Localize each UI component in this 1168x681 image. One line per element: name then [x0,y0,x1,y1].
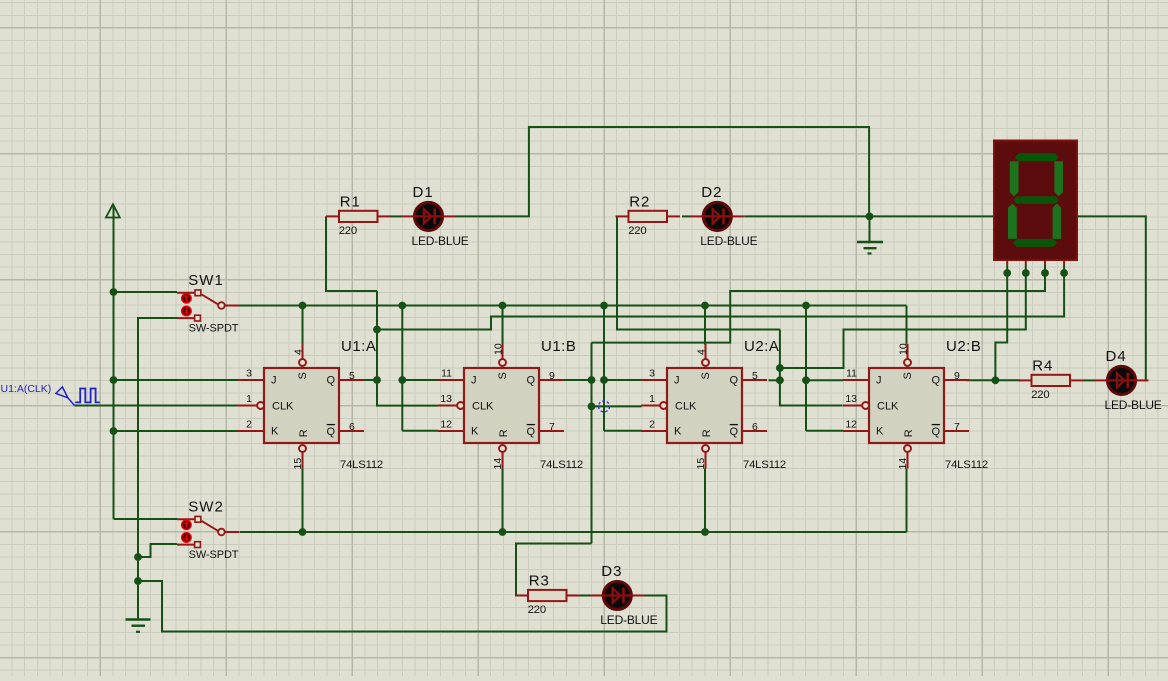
wire D1 cathode top loop to ground junction [456,127,870,216]
wire SW1 pole S-row [239,305,907,307]
svg-text:1: 1 [246,393,252,405]
wire SW2 pole R-row [240,531,907,533]
svg-text:SW2: SW2 [188,499,224,516]
svg-text:10: 10 [898,343,910,355]
svg-text:D1: D1 [413,184,434,201]
svg-text:220: 220 [628,225,646,237]
wire VCC to SW2 top throw [114,518,178,520]
svg-text:J: J [471,375,477,387]
wire R-row up to U1:B R pin [502,469,504,533]
wire Q2A vertical to U2:B CLK [780,330,843,406]
svg-text:LED-BLUE: LED-BLUE [700,234,757,248]
resistor R1 (220) [326,211,391,222]
wire GND rail to D3 cathode (bottom run) [138,581,667,632]
wire to U1:B K [402,430,438,432]
svg-text:R: R [498,429,510,437]
wire Q1B vertical [591,343,593,544]
wire Q1B to display pin3 [592,273,1046,343]
clock generator marker U1:A(CLK) [56,387,68,398]
switch SW2 (SW-SPDT) [177,516,240,547]
wire SW2 bottom throw to GND rail [138,544,177,557]
wire Q2B row to R4 [966,379,1020,381]
ground (bottom left) [126,618,151,620]
wire VCC to U1:A K [114,430,239,432]
wire S-row down to U1:A S pin [302,306,304,345]
svg-text:SW-SPDT: SW-SPDT [189,323,239,335]
wire S-row down to U2:B S pin [906,306,908,345]
svg-text:LED-BLUE: LED-BLUE [1105,398,1162,412]
J-K flip-flop U1:B (74LS112) [438,343,564,469]
svg-text:3: 3 [246,368,252,380]
J-K flip-flop U2:A (74LS112) [641,344,767,470]
svg-text:Q: Q [729,426,738,438]
svg-text:220: 220 [1031,389,1049,401]
J-K flip-flop U2:B (74LS112) [843,343,969,469]
svg-text:6: 6 [752,421,758,433]
wire display pin stubs [1006,265,1008,275]
svg-text:4: 4 [293,349,305,355]
svg-text:CLK: CLK [272,401,294,413]
svg-text:6: 6 [349,421,355,433]
wire VCC to SW1 top throw [114,291,178,293]
wire Q1A to display pin4 [377,273,1064,330]
resistor R2 (220) [616,211,681,222]
resistor R3 (220) [515,590,580,601]
svg-text:Q: Q [526,426,535,438]
svg-text:K: K [674,426,682,438]
svg-text:Q: Q [729,375,738,387]
ground (top, near D2) [857,241,883,243]
svg-text:R: R [701,429,713,437]
wire D2 cathode to ground junction [744,215,869,217]
svg-text:11: 11 [846,368,857,380]
wire VCC to U1:A J [114,379,239,381]
LED D1 (LED-BLUE) [402,202,456,230]
wire Q1A up to R1 [326,216,377,291]
J-K flip-flop U1:A (74LS112) [238,344,364,470]
svg-text:74LS112: 74LS112 [540,459,583,471]
svg-text:CLK: CLK [877,401,899,413]
svg-text:9: 9 [954,370,960,382]
svg-text:2: 2 [649,419,655,431]
svg-text:Q: Q [931,375,940,387]
svg-text:7: 7 [549,421,555,433]
wire VCC vertical rail [113,205,115,519]
svg-text:J: J [674,375,680,387]
resistor R4 (220) [1019,375,1084,386]
svg-text:LED-BLUE: LED-BLUE [412,234,469,248]
svg-text:D3: D3 [601,563,622,580]
switch SW1 (SW-SPDT) [177,290,240,321]
power terminal arrow [106,204,120,217]
svg-text:Q: Q [326,426,335,438]
svg-text:K: K [271,426,279,438]
wire S-net row to U2:A J [604,379,642,381]
wire Q2B to display pin1 [995,273,1007,380]
wire R-row up to U2:B R pin [906,469,908,533]
svg-text:SW1: SW1 [188,272,224,289]
svg-text:S: S [297,372,309,379]
wire Q1A vertical to U1:B CLK [377,291,438,406]
svg-text:R: R [903,429,915,437]
svg-text:14: 14 [897,458,909,470]
no-connect marker (blue dashed circle) [599,401,610,412]
svg-text:S: S [497,372,509,379]
svg-text:D4: D4 [1106,348,1127,365]
wire Q1B row [564,379,592,381]
wire S-row to U1:B J/K vertical [401,306,403,431]
svg-text:Q: Q [326,375,335,387]
wire S-net row to U2:B J [806,379,843,381]
svg-text:Q: Q [931,426,940,438]
svg-text:74LS112: 74LS112 [743,459,786,471]
wire GND rail from SW1 bottom throw [138,318,177,620]
svg-text:12: 12 [440,419,452,431]
svg-text:R3: R3 [529,573,550,590]
wire S-row down to U2:A S pin [704,306,706,345]
svg-text:K: K [471,426,479,438]
junction dots [110,288,118,296]
svg-text:CLK: CLK [472,401,494,413]
svg-text:R4: R4 [1032,357,1053,374]
wire R-row up to U2:A R pin [704,469,706,533]
svg-text:7: 7 [954,421,960,433]
svg-text:U2:A: U2:A [744,338,779,355]
svg-text:10: 10 [493,343,505,355]
svg-text:220: 220 [339,225,357,237]
svg-text:S: S [700,372,712,379]
svg-text:5: 5 [349,370,355,382]
svg-text:J: J [271,375,277,387]
svg-text:R2: R2 [629,193,650,210]
wire Q1B down to R3 [516,544,592,596]
7-segment display [994,141,1077,265]
svg-text:R: R [298,429,310,437]
svg-text:15: 15 [695,458,707,470]
svg-text:13: 13 [845,393,857,405]
svg-text:LED-BLUE: LED-BLUE [600,613,657,627]
wire Q2A to display pin2 [780,273,1026,368]
svg-text:U1:A: U1:A [341,338,376,355]
svg-text:D2: D2 [701,184,722,201]
svg-text:S: S [902,372,914,379]
wire to U1:B J [402,379,438,381]
svg-text:15: 15 [292,458,304,470]
svg-text:J: J [876,375,882,387]
svg-text:SW-SPDT: SW-SPDT [189,549,239,561]
wire ground junction drop [869,216,871,242]
LED D3 (LED-BLUE) [590,582,644,610]
svg-text:5: 5 [752,370,758,382]
svg-text:74LS112: 74LS112 [945,459,988,471]
svg-text:220: 220 [528,604,546,616]
wire ground junction to D4 cathode (behind display) [870,216,1147,380]
svg-text:12: 12 [845,419,857,431]
svg-text:Q: Q [526,375,535,387]
wire Q1B to U2:A CLK [592,405,642,407]
svg-text:R1: R1 [340,193,361,210]
svg-text:K: K [876,426,884,438]
svg-text:U1:B: U1:B [541,338,576,355]
wire S-row to U2:B J/K vertical [805,306,807,431]
svg-text:11: 11 [441,368,452,380]
wire R1 to D1 [390,215,402,217]
svg-text:4: 4 [696,349,708,355]
svg-text:13: 13 [440,393,452,405]
wire S-row down to U1:B S pin [502,306,504,345]
svg-text:14: 14 [492,458,504,470]
LED D2 (LED-BLUE) [690,202,744,230]
wire to U2:B K [806,430,843,432]
wire S-row to U2:A J/K vertical [603,306,605,431]
svg-text:9: 9 [549,370,555,382]
wire R4 to D4 [1083,379,1095,381]
wire to U2:A K [604,430,642,432]
wire clock input to U1:A CLK [75,405,238,407]
wire R-row up to U1:A R pin [302,469,304,533]
svg-text:U2:B: U2:B [946,338,981,355]
wire R2 to D2 [682,215,691,217]
svg-text:CLK: CLK [675,401,697,413]
svg-text:74LS112: 74LS112 [340,459,383,471]
wire Q2A row [769,379,780,381]
wire Q1A output row [364,379,377,381]
svg-text:2: 2 [246,419,252,431]
svg-text:U1:A(CLK): U1:A(CLK) [1,383,52,395]
wire R3 to D3 [579,595,592,597]
LED D4 (LED-BLUE) [1095,366,1149,394]
svg-text:3: 3 [649,368,655,380]
wire Q2A up to R2 [617,216,780,329]
svg-text:1: 1 [649,393,655,405]
